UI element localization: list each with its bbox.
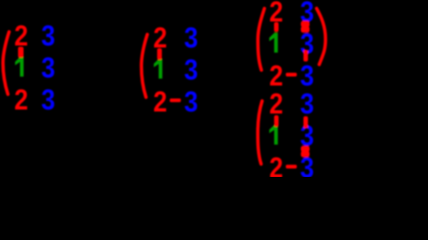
M2 left parenthesis	[141, 34, 147, 97]
M4 thick red mark col2 rows2-3	[301, 146, 310, 152]
M4 left parenthesis	[258, 101, 262, 164]
M2 red dash col1 rows1-2	[157, 48, 162, 60]
svg-text:2: 2	[269, 88, 283, 120]
matrix M1 (top-left)	[3, 20, 55, 116]
svg-text:2: 2	[269, 152, 283, 177]
M1 entry (2,1) value 1	[15, 57, 23, 77]
M4 minus sign row3	[286, 165, 297, 169]
M3 right parenthesis	[317, 8, 326, 64]
M2 entry (2,1) value 1	[154, 59, 163, 79]
svg-text:3: 3	[41, 52, 55, 84]
M4 red dash col1 rows1-2	[274, 115, 278, 127]
svg-text:3: 3	[184, 22, 198, 54]
M3 thick red mark col2 rows1-2	[301, 21, 310, 27]
M2 minus sign row3	[170, 98, 181, 102]
svg-text:3: 3	[41, 84, 55, 116]
M3 minus sign row3	[286, 73, 297, 77]
M1 left parenthesis	[3, 32, 9, 95]
four colored matrices on black background	[0, 0, 428, 177]
M3 left parenthesis	[258, 9, 265, 71]
M3 entry (2,1) value 1	[269, 33, 278, 53]
M3 red dash col1 rows1-2	[274, 22, 279, 32]
M3 red dash col2 rows2-3	[303, 50, 308, 62]
matrix M2 (middle)	[141, 22, 198, 118]
M4 entry (2,1) value 1	[269, 125, 278, 145]
svg-text:3: 3	[184, 86, 198, 118]
matrix M3 (top-right)	[258, 0, 326, 92]
svg-text:3: 3	[300, 88, 314, 120]
svg-text:2: 2	[153, 86, 167, 118]
svg-text:2: 2	[14, 84, 28, 116]
svg-text:3: 3	[41, 20, 55, 52]
M1 red dash col1 rows1-2	[18, 47, 24, 58]
matrix M4 (bottom-right)	[258, 88, 314, 184]
svg-text:3: 3	[184, 54, 198, 86]
M4 red dash col2 rows1-2	[303, 116, 308, 128]
